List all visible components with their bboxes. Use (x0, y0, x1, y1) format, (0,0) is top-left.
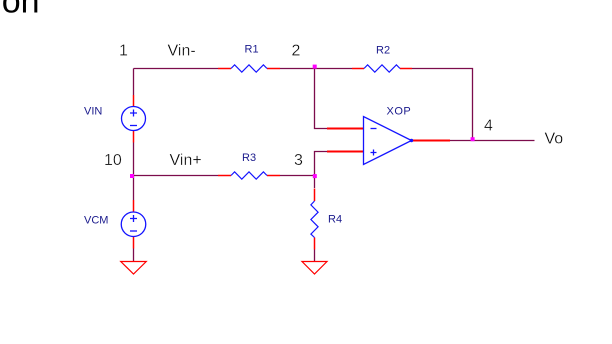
wire: VIN bottom to node 10 (133, 143, 135, 176)
pin lead: R3 right (267, 175, 280, 177)
pin lead: R1 right (267, 68, 280, 70)
svg-text:R1: R1 (245, 44, 259, 56)
pin lead: VIN top (133, 95, 135, 107)
pin lead: op-amp non-inverting input (327, 151, 364, 153)
pin lead: R2 right (400, 68, 412, 70)
voltage source VIN body (122, 107, 146, 131)
wire: node 3 vertical up to non-inverting input (315, 152, 328, 176)
resistor R1 body (231, 65, 267, 72)
pin lead: VCM bottom (133, 237, 135, 249)
op-amp output pin dot (410, 139, 413, 142)
junction dot node 4 (471, 137, 475, 141)
resistor R2 body (364, 65, 400, 72)
svg-text:VCM: VCM (84, 215, 108, 227)
pin lead: R4 bottom (314, 238, 316, 250)
pin lead: VIN bottom (133, 131, 135, 143)
svg-text:10: 10 (104, 152, 122, 169)
op-amp XOP body (364, 117, 412, 165)
wire: op-amp output to node 4 and Vo (450, 140, 535, 142)
wire: node 10 down to VCM (133, 176, 135, 201)
wire: R2 right to top-right corner then down to node 4 (412, 69, 473, 141)
ground symbol (below VCM) (121, 262, 147, 275)
wire: node 3 down to R4 (314, 176, 316, 189)
junction dot node 3 (313, 174, 317, 178)
pin lead: VCM top (133, 200, 135, 212)
svg-text:XOP: XOP (387, 106, 412, 118)
svg-text:R2: R2 (376, 45, 390, 57)
svg-text:Vin-: Vin- (168, 43, 196, 60)
svg-text:Vo: Vo (545, 131, 564, 148)
svg-text:1: 1 (119, 43, 128, 60)
pin lead: op-amp inverting input (327, 128, 364, 130)
pin lead: R4 top (314, 189, 316, 202)
svg-text:4: 4 (484, 118, 493, 135)
svg-text:Vin+: Vin+ (170, 152, 202, 169)
voltage source VCM body (121, 212, 146, 237)
wire: Vin+ horizontal node 10 to R3 (134, 175, 219, 177)
svg-text:R4: R4 (328, 214, 342, 226)
wire: node 2 to R2 left (315, 68, 353, 70)
svg-text:VIN: VIN (84, 106, 102, 118)
pin lead: op-amp output (412, 140, 451, 142)
resistor R3 body (231, 172, 267, 179)
resistor R4 body (vertical) (311, 201, 318, 238)
svg-text:ion: ion (0, 0, 40, 20)
junction dot node 2 (313, 65, 317, 69)
wire: VCM bottom to ground (133, 249, 135, 262)
pin lead: R2 left (352, 68, 364, 70)
svg-text:R3: R3 (242, 152, 256, 164)
pin lead: R3 left (218, 175, 231, 177)
wire: node 2 vertical down to inverting input (315, 69, 328, 129)
wire: R3 right to node 3 (280, 175, 315, 177)
junction dot node 10 (130, 174, 134, 178)
wire: top horizontal node1 to R1 (net Vin-) (134, 68, 219, 70)
svg-text:2: 2 (292, 43, 301, 60)
wire: vertical from node 1 corner down to VIN (133, 69, 135, 96)
wire: R1 right to node 2 (280, 68, 315, 70)
pin lead: R1 left (218, 68, 231, 70)
wire: R4 bottom to ground (314, 250, 316, 262)
svg-text:3: 3 (294, 152, 303, 169)
ground symbol (below R4) (302, 262, 327, 275)
